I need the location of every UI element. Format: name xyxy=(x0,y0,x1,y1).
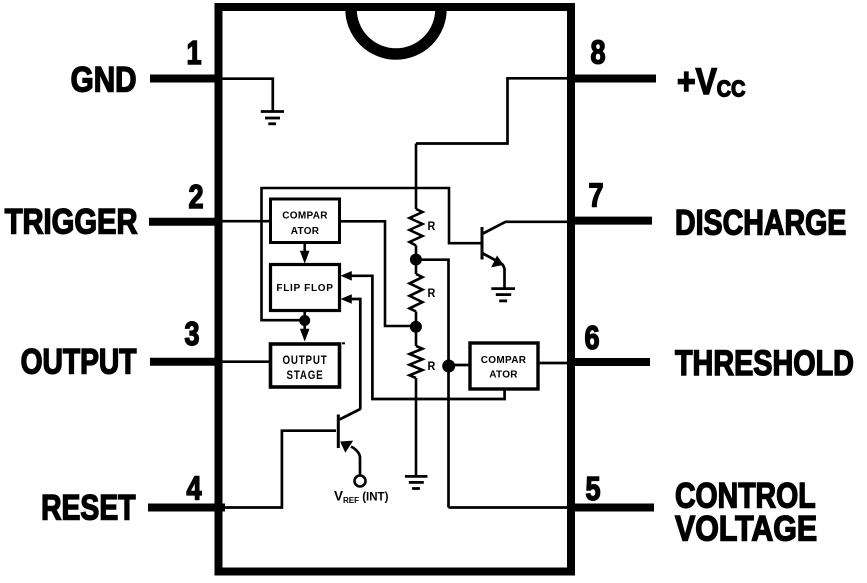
pin 5 stub xyxy=(568,504,654,512)
node junction dot R1/R2 (2/3 Vcc) xyxy=(410,254,422,266)
pin number 2 xyxy=(188,180,203,216)
svg-text:GND: GND xyxy=(71,60,137,99)
artifact tick near output stage xyxy=(342,342,345,344)
pin number 8 xyxy=(590,35,605,71)
svg-text:1: 1 xyxy=(186,36,201,72)
R1 value label R xyxy=(428,221,436,234)
svg-text:5: 5 xyxy=(585,472,600,508)
svg-text:8: 8 xyxy=(590,35,605,71)
flip flop text xyxy=(276,283,333,294)
label GND xyxy=(71,60,137,99)
wire R2 to R3 xyxy=(415,312,418,347)
svg-text:THRESHOLD: THRESHOLD xyxy=(675,343,854,382)
wire comparator U1 to 1/3 node xyxy=(340,221,417,326)
svg-text:2: 2 xyxy=(188,180,203,216)
wire R3 to ground xyxy=(415,378,418,477)
flip flop box xyxy=(271,265,340,311)
wire comparator U2 to pin6 threshold xyxy=(538,362,571,365)
wire pin4 to Q2 base xyxy=(225,431,336,508)
resistor R1 xyxy=(410,209,423,246)
pin 4 stub xyxy=(148,504,225,512)
svg-text:DISCHARGE: DISCHARGE xyxy=(675,203,846,242)
svg-text:STAGE: STAGE xyxy=(286,369,323,382)
svg-text:R: R xyxy=(428,288,436,301)
comparator U2 text xyxy=(481,355,527,366)
IC package outline U1 xyxy=(219,7,572,572)
arrow comparator U2 output to flip flop set input xyxy=(350,276,505,399)
node junction dot control voltage xyxy=(442,360,455,373)
svg-text:R: R xyxy=(428,221,436,234)
svg-text:ATOR: ATOR xyxy=(291,226,320,237)
svg-text:VOLTAGE: VOLTAGE xyxy=(675,508,817,548)
label +VCC xyxy=(677,62,745,103)
wire feedback flip flop node to discharge transistor base xyxy=(262,188,481,320)
label DISCHARGE xyxy=(675,203,846,242)
wire R1 to R2 xyxy=(415,246,418,275)
wire pin5 control voltage xyxy=(449,506,572,509)
ground symbol G3 xyxy=(491,289,515,301)
label CONTROL xyxy=(675,476,816,516)
pin 3 stub xyxy=(150,358,222,366)
wire pin1 to ground xyxy=(222,79,273,112)
label RESET xyxy=(41,488,136,528)
svg-text:TRIGGER: TRIGGER xyxy=(5,202,138,241)
svg-text:COMPAR: COMPAR xyxy=(282,211,328,222)
label THRESHOLD xyxy=(675,343,854,382)
svg-text:3: 3 xyxy=(184,317,199,353)
output stage text xyxy=(282,354,327,367)
svg-text:VREF (INT): VREF (INT) xyxy=(334,489,389,506)
arrow comparator U1 output to flip flop xyxy=(303,244,306,253)
svg-text:FLIP FLOP: FLIP FLOP xyxy=(276,283,333,294)
terminal circle Vref xyxy=(355,476,366,487)
svg-text:R: R xyxy=(428,361,436,374)
svg-text:OUTPUT: OUTPUT xyxy=(282,354,327,367)
pin 2 stub xyxy=(149,218,222,226)
arrow flip flop to output stage xyxy=(300,329,310,342)
pin number 1 xyxy=(186,36,201,72)
pin 6 stub xyxy=(568,358,650,366)
Q2 collector xyxy=(340,409,361,420)
svg-text:7: 7 xyxy=(588,178,603,214)
resistor R2 xyxy=(410,274,423,312)
index notch xyxy=(351,9,441,54)
svg-text:RESET: RESET xyxy=(41,488,136,528)
pin number 5 xyxy=(585,472,600,508)
R3 value label R xyxy=(428,361,436,374)
node junction dot R2/R3 (1/3 Vcc) xyxy=(410,321,422,333)
label TRIGGER xyxy=(5,202,138,241)
pin number 7 xyxy=(588,178,603,214)
wire 2/3 node to control/comparator rail xyxy=(416,260,449,508)
label VOLTAGE xyxy=(675,508,817,548)
arrow reset transistor collector to flip flop reset input xyxy=(350,299,360,410)
wire pin8 to divider top xyxy=(416,78,571,143)
R2 value label R xyxy=(428,288,436,301)
svg-text:4: 4 xyxy=(186,471,201,507)
svg-text:ATOR: ATOR xyxy=(489,370,518,381)
Q2 emitter with arrow xyxy=(351,447,360,475)
pin 8 stub xyxy=(568,75,656,83)
ground symbol G1 xyxy=(261,112,284,124)
wire node to comparator U2 input xyxy=(449,364,471,367)
resistor R3 xyxy=(410,346,423,378)
pin number 6 xyxy=(584,321,599,357)
output stage box xyxy=(271,344,340,387)
pin 7 stub xyxy=(568,217,652,225)
label OUTPUT xyxy=(21,342,137,382)
wire pin2 to comparator U1 xyxy=(222,220,272,223)
svg-text:COMPAR: COMPAR xyxy=(481,355,527,366)
pin 1 stub xyxy=(150,75,222,83)
node junction dot flip flop output xyxy=(299,315,310,326)
wire flip flop output node xyxy=(303,311,306,321)
svg-text:6: 6 xyxy=(584,321,599,357)
pin number 3 xyxy=(184,317,199,353)
ground symbol G2 xyxy=(405,476,428,488)
pin number 4 xyxy=(186,471,201,507)
comparator U1 box xyxy=(271,199,340,243)
transistor Q1 discharge : base bar xyxy=(481,227,484,260)
transistor Q2 reset : base bar xyxy=(337,415,340,449)
Q1 emitter with arrow xyxy=(483,254,505,288)
comparator U1 text xyxy=(282,211,328,222)
comparator U2 box xyxy=(470,343,538,389)
wire divider chain top segment xyxy=(415,144,418,210)
wire pin3 to output stage xyxy=(222,360,271,363)
Q1 collector xyxy=(483,222,571,234)
svg-text:OUTPUT: OUTPUT xyxy=(21,342,137,382)
